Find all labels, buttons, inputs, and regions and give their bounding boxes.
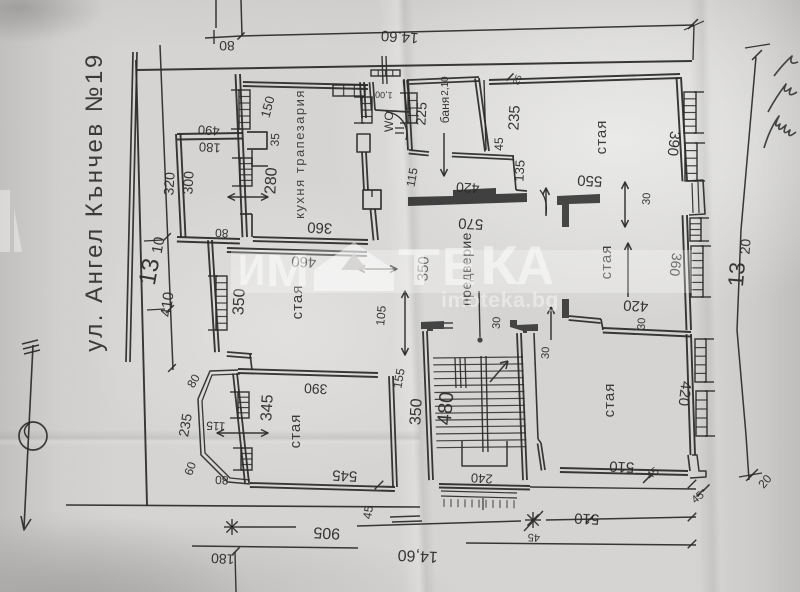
vertical crease fold xyxy=(379,0,448,592)
svg-text:905: 905 xyxy=(313,523,341,541)
kitchen window upper-left xyxy=(239,90,250,129)
svg-text:360: 360 xyxy=(307,218,333,236)
svg-text:45: 45 xyxy=(527,531,540,544)
svg-text:1,00: 1,00 xyxy=(375,90,393,101)
svg-text:80: 80 xyxy=(219,38,235,54)
site boundary line top xyxy=(137,61,692,70)
svg-text:235: 235 xyxy=(505,105,523,131)
stair arrow xyxy=(490,361,508,382)
svg-text:320: 320 xyxy=(160,171,177,195)
br room east wall xyxy=(691,334,695,455)
mid room north wall xyxy=(227,248,367,252)
signature squiggle xyxy=(764,56,798,148)
north arrow line xyxy=(24,345,33,528)
svg-text:13: 13 xyxy=(723,261,750,288)
svg-text:К: К xyxy=(480,234,518,296)
svg-text:45: 45 xyxy=(360,504,376,520)
svg-text:35: 35 xyxy=(268,132,283,146)
north arrow hatch xyxy=(22,340,38,344)
dim line 510 south xyxy=(530,487,696,489)
svg-text:баня: баня xyxy=(438,97,452,123)
svg-text:14.60: 14.60 xyxy=(380,27,419,47)
dim line 510 street xyxy=(546,517,696,520)
svg-text:240: 240 xyxy=(471,470,493,486)
kitchen window on top wall xyxy=(333,85,365,96)
secondary crease right margin xyxy=(688,0,730,592)
svg-text:420: 420 xyxy=(675,380,695,407)
bay west window 2 xyxy=(241,448,252,470)
dimension line 1310 vertical xyxy=(160,45,173,370)
WC right wall xyxy=(407,80,410,110)
east balcony bump xyxy=(687,180,705,215)
room 320 top wall xyxy=(177,133,243,134)
svg-text:14,60: 14,60 xyxy=(397,546,438,565)
svg-text:350: 350 xyxy=(407,398,425,426)
east window 2 xyxy=(685,143,697,181)
svg-text:ул. Ангел Кънчев №19: ул. Ангел Кънчев №19 xyxy=(81,52,108,351)
kitchen left wall xyxy=(240,74,247,237)
hall door arrow right xyxy=(545,188,547,216)
svg-text:225: 225 xyxy=(412,101,429,125)
svg-text:510: 510 xyxy=(574,509,600,527)
svg-text:30: 30 xyxy=(641,192,654,205)
svg-text:280: 280 xyxy=(262,167,280,195)
bay room south wall xyxy=(250,483,395,487)
street line bottom xyxy=(66,505,420,507)
svg-text:WC: WC xyxy=(382,112,396,132)
kitchen bottom wall xyxy=(253,237,368,240)
svg-text:13: 13 xyxy=(134,256,165,287)
watermark fragment left edge xyxy=(0,190,22,252)
big room north wall xyxy=(489,74,680,80)
north arrow circle xyxy=(19,422,47,450)
stair left wall xyxy=(427,331,433,480)
kitchen chimney niche xyxy=(247,132,267,149)
watermark IMOTEKA band xyxy=(231,250,693,293)
equals marks xyxy=(390,516,420,517)
bay room west wall xyxy=(237,373,249,483)
bath step wall xyxy=(513,156,516,190)
svg-text:390: 390 xyxy=(303,380,327,397)
kitchen right wall mid xyxy=(366,152,368,190)
entrance steps hatch xyxy=(441,491,517,493)
kitchen cabinet hatch right wall xyxy=(362,97,372,123)
hall bottom pillar T xyxy=(421,321,444,331)
svg-text:115: 115 xyxy=(206,418,226,433)
horizontal arrow hall xyxy=(358,268,397,270)
svg-text:80: 80 xyxy=(214,473,228,488)
door dot line xyxy=(479,291,480,337)
svg-text:345: 345 xyxy=(258,394,276,422)
hall bottom wall piece xyxy=(510,320,538,333)
svg-text:10: 10 xyxy=(149,236,169,255)
bath door arrow xyxy=(443,133,445,176)
wall extension line x241 xyxy=(241,0,242,36)
bay room east wall xyxy=(393,376,397,487)
stair right wall xyxy=(521,333,527,480)
stair balusters xyxy=(455,358,456,388)
bay west window 1 xyxy=(238,392,249,418)
kitchen notch wall xyxy=(251,214,253,237)
svg-text:imoteka.bg: imoteka.bg xyxy=(441,289,559,312)
mid room west window xyxy=(216,276,227,330)
stair bottom wall xyxy=(439,484,530,486)
kitchen window lower-left xyxy=(240,158,252,186)
wall extension line x216 xyxy=(215,0,217,28)
vertical arrow hall low xyxy=(404,291,406,355)
svg-text:стая: стая xyxy=(601,383,618,418)
stair stringer xyxy=(481,356,483,452)
wall piece right of hall xyxy=(557,194,600,227)
br SE corner step xyxy=(690,455,706,478)
WC door arc xyxy=(386,112,407,140)
bath right wall xyxy=(479,78,489,151)
svg-text:30: 30 xyxy=(491,316,504,329)
stair treads xyxy=(433,357,523,358)
svg-text:550: 550 xyxy=(577,171,603,189)
bath window left wall xyxy=(408,93,417,123)
east window 1 xyxy=(684,92,696,133)
svg-text:кухня трапезария: кухня трапезария xyxy=(292,89,307,219)
bath left wall xyxy=(408,79,412,150)
WC vent window top xyxy=(371,70,400,76)
kitchen top wall xyxy=(243,82,368,85)
WC bottom wall xyxy=(375,110,410,112)
svg-text:И: И xyxy=(238,246,265,295)
svg-text:М: М xyxy=(266,245,309,296)
dimension tick 80 top-left xyxy=(205,36,241,38)
stair landing inner box xyxy=(462,441,507,466)
WC left wall xyxy=(373,82,375,110)
svg-text:30: 30 xyxy=(540,346,553,359)
br east window 1 xyxy=(695,339,706,382)
svg-text:Т: Т xyxy=(398,239,440,297)
dim line 1320 xyxy=(737,57,756,480)
svg-text:А: А xyxy=(516,234,554,296)
svg-text:410: 410 xyxy=(158,291,178,318)
svg-text:стая: стая xyxy=(287,414,304,449)
big room south wall east part xyxy=(603,328,691,332)
hall thick south wall xyxy=(408,188,527,206)
svg-text:30: 30 xyxy=(636,317,649,330)
bath top wall xyxy=(409,77,479,80)
svg-text:420: 420 xyxy=(623,296,649,314)
watermark IMOTEKA letters xyxy=(238,234,559,312)
kitchen right wall upper xyxy=(364,82,366,118)
svg-text:480: 480 xyxy=(434,391,459,426)
br room south wall xyxy=(560,468,688,471)
svg-text:490: 490 xyxy=(198,122,220,138)
central pillar xyxy=(363,190,381,209)
east window 4 xyxy=(691,246,703,297)
dim 180 bottom-left xyxy=(192,546,358,548)
svg-text:45: 45 xyxy=(492,137,506,151)
big room east wall upper xyxy=(681,77,687,181)
svg-text:105: 105 xyxy=(373,305,389,326)
svg-text:2,10: 2,10 xyxy=(440,76,451,96)
kitchen right wall lower xyxy=(375,209,378,240)
bath bottom wall left xyxy=(409,150,429,152)
dim line 1460 bottom xyxy=(466,543,696,545)
svg-text:545: 545 xyxy=(332,466,358,484)
svg-text:135: 135 xyxy=(511,160,527,182)
arrow kitchen door xyxy=(228,196,268,198)
svg-text:510: 510 xyxy=(609,457,635,475)
svg-text:стая: стая xyxy=(593,120,610,155)
svg-text:80: 80 xyxy=(214,226,228,241)
kitchen chimney box right xyxy=(357,134,370,152)
top dimension line 1460 xyxy=(241,25,694,36)
bath bottom wall right xyxy=(452,153,514,156)
svg-text:390: 390 xyxy=(664,130,684,157)
svg-text:180: 180 xyxy=(199,139,221,155)
bay room north wall xyxy=(238,369,378,373)
horizontal crease xyxy=(0,430,420,446)
street name underline double xyxy=(126,52,133,362)
svg-text:570: 570 xyxy=(458,214,484,232)
svg-text:20: 20 xyxy=(736,238,753,255)
mid room south wall xyxy=(227,352,252,354)
room 320 left wall xyxy=(176,134,181,237)
mid room west wall xyxy=(212,240,219,352)
bay arrow xyxy=(217,432,268,434)
big room east wall lower xyxy=(687,215,691,330)
stair right wall 2 xyxy=(534,333,538,439)
svg-text:420: 420 xyxy=(455,179,479,196)
tick 25 xyxy=(506,73,513,80)
star2 and X xyxy=(525,519,541,521)
bay outline xyxy=(198,370,250,484)
star dim 905 xyxy=(224,526,240,528)
big room south wall west part xyxy=(569,316,601,319)
hall-room arrow xyxy=(624,182,626,227)
svg-text:300: 300 xyxy=(179,170,196,194)
big room west wall piece xyxy=(562,299,569,318)
room 320 bottom wall xyxy=(177,237,240,239)
br east window 2 xyxy=(696,391,707,436)
svg-text:Е: Е xyxy=(442,237,476,297)
left boundary vertical line xyxy=(136,60,147,505)
east window 3 xyxy=(690,218,701,241)
svg-text:180: 180 xyxy=(210,550,234,567)
